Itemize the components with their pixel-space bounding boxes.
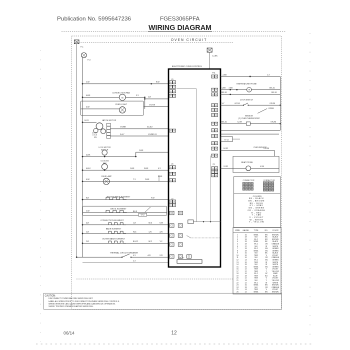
svg-text:7-BK: 7-BK [229,88,234,90]
pin J4-3 [169,179,172,182]
pin P11-8 [212,129,215,132]
svg-text:DOOR SWITCH: DOOR SWITCH [240,99,254,101]
svg-text:BROWN: BROWN [272,291,279,293]
svg-text:BK-10: BK-10 [272,92,277,94]
right box edge [279,77,281,131]
svg-text:M: M [121,97,123,99]
svg-text:12: 12 [245,291,247,293]
svg-text:OR/BK: OR/BK [268,108,274,110]
pin J2-1 [169,200,172,203]
svg-text:OVEN LAMP: OVEN LAMP [101,175,112,178]
pin P11-5 [212,108,215,111]
wire right row D [221,104,244,106]
svg-text:OR-96: OR-96 [264,148,270,150]
svg-text:Y - YELLOW: Y - YELLOW [249,222,264,224]
svg-text:31-BU: 31-BU [147,127,153,129]
svg-text:COLOR: COLOR [272,230,279,232]
pin J9-2 [169,85,172,88]
wire to pin 2-R [145,98,169,100]
svg-text:P-3: P-3 [88,60,91,62]
wire element1 row [83,199,169,201]
svg-text:GY-8: GY-8 [141,215,145,217]
pin J4-1 [169,166,172,169]
svg-text:CAUTION:: CAUTION: [45,295,56,298]
svg-text:P2 J2: P2 J2 [224,139,228,141]
svg-text:W-6: W-6 [149,223,152,225]
lock switch circle [102,150,107,155]
svg-text:9-BK: 9-BK [144,168,149,170]
wire table box [233,228,281,295]
svg-text:OR-96: OR-96 [270,103,276,105]
wire lock row [83,156,136,158]
svg-text:6-OR: 6-OR [238,122,243,124]
wire right lower [221,133,280,135]
wire latch feed [83,121,97,123]
wire U2 out [193,221,220,223]
svg-text:SW.: SW. [94,137,98,139]
svg-text:4-BK: 4-BK [86,95,91,97]
fold mark left [40,50,42,342]
EOC inner wire vertical [195,89,197,222]
svg-text:V-44: V-44 [260,166,264,168]
pin P11-10 [212,142,215,145]
svg-text:LABEL ALL WIRES PRIOR TO DISCO: LABEL ALL WIRES PRIOR TO DISCONNECTION W… [49,300,120,303]
svg-text:OVEN LIGHT: OVEN LIGHT [115,104,128,106]
element1 squiggle [106,197,127,199]
pin J2-2 [169,203,172,206]
connector P2 box [221,137,233,142]
wire latch long [110,135,220,137]
wire lock jog [135,152,137,156]
pin J9-3 [169,90,172,93]
caution box [44,293,282,309]
wire jog [144,97,146,109]
wire latch a [110,128,168,130]
colors divider [234,192,281,194]
svg-text:WIRING DIAGRAM: WIRING DIAGRAM [148,23,211,32]
table header line [233,231,281,233]
svg-text:BK-10: BK-10 [270,88,275,90]
wire conv el row [83,224,169,226]
wire outer bake row [83,242,169,244]
pin J4-2 [169,172,172,175]
connector J6 row [170,255,174,259]
pin P1-3 [212,174,215,177]
svg-text:12-BK: 12-BK [212,55,218,57]
breaker switch [122,254,130,257]
thermostat diagonal [258,109,268,114]
svg-text:W-2: W-2 [149,241,152,243]
svg-text:W-6: W-6 [133,231,136,233]
svg-text:OR-96: OR-96 [271,122,277,124]
label GY-8 broil [139,213,147,216]
EOC inner vertical 2 [210,156,212,222]
svg-text:2-OR: 2-OR [224,166,229,168]
svg-text:4-BK: 4-BK [86,154,91,156]
meat probe box [233,156,279,172]
svg-text:4-W: 4-W [86,179,90,181]
wire right row C [221,93,281,95]
broil diagonal [145,207,151,212]
svg-text:1-BK: 1-BK [222,88,227,90]
connector colors box [234,177,281,228]
svg-text:MEAT PROBE: MEAT PROBE [241,161,253,164]
oven light box [81,101,144,115]
svg-text:BK-10: BK-10 [222,122,227,124]
svg-text:P-1: P-1 [81,47,84,49]
wire bottom row [83,262,169,264]
svg-text:2-BK: 2-BK [223,74,228,76]
conv el squiggle [109,223,127,225]
svg-text:BK-10: BK-10 [222,92,227,94]
terminal L2 [207,48,212,52]
EOC inner wire horizontal [177,88,197,90]
wire breaker row [77,256,122,258]
thermostat symbol [246,122,250,125]
terminal N fuse [81,53,86,58]
svg-text:ELECTRONIC OVEN CONTROL: ELECTRONIC OVEN CONTROL [172,66,203,68]
svg-text:J4: J4 [171,164,173,166]
svg-text:BK-8: BK-8 [133,211,137,213]
svg-text:VERIFY PROPER OPERATION AFTER: VERIFY PROPER OPERATION AFTER SERVICING. [49,305,94,308]
right box bottom [221,129,281,131]
svg-text:CONVECTION ELEMENT: CONVECTION ELEMENT [100,220,124,222]
pin P11-4 [212,104,215,107]
wire lock to pin [136,151,169,153]
connector pin grids [243,182,245,184]
wire meat probe [221,167,246,169]
svg-text:2-W: 2-W [86,82,90,84]
convection fan motor [119,94,125,100]
wire main bus [82,58,84,257]
svg-text:SRML: SRML [254,291,259,293]
svg-text:9-GY: 9-GY [120,134,125,136]
pin P11-2 [212,88,215,91]
svg-text:GY/BR: GY/BR [120,127,127,129]
fold mark bottom [36,343,314,345]
pin P11-11 [212,147,215,150]
svg-text:(2) OVEN THERMOSTAT: (2) OVEN THERMOSTAT [238,117,260,120]
svg-text:LATCH MOTOR: LATCH MOTOR [102,119,117,122]
svg-text:8-W: 8-W [156,82,160,84]
fold mark right [309,33,311,342]
svg-text:CONNECTOR: CONNECTOR [243,180,255,182]
svg-text:GY-96: GY-96 [235,103,240,105]
connector J4b row [170,224,174,228]
broil squiggle [106,210,127,212]
svg-text:9-W: 9-W [160,223,164,225]
inner dashed line [76,42,233,44]
svg-text:4-W: 4-W [86,107,90,109]
svg-text:4-Y 2-Y: 4-Y 2-Y [179,257,186,259]
wire cooling row [83,169,169,171]
connector J3b row [170,234,174,238]
oven lamp symbol [103,178,109,184]
meat probe jack [246,166,251,171]
svg-text:12: 12 [171,331,177,337]
wire light to pin [144,106,169,108]
pin P11-7 [212,122,215,125]
pin P11-1 [212,75,215,78]
connector J7 row [170,243,174,247]
svg-text:4-BU: 4-BU [86,168,91,170]
EOC box U1 [169,69,221,267]
outer dashed border [72,36,282,309]
title underline [148,30,212,32]
svg-text:TEMPERATURE PROBE: TEMPERATURE PROBE [236,83,257,86]
wire lamp row [83,180,169,182]
wire row top [83,83,169,85]
svg-text:Publication No. 5995647236: Publication No. 5995647236 [57,17,132,23]
wire oven light [81,108,120,110]
svg-text:8-GY: 8-GY [85,120,90,122]
pin P11-12 [212,154,215,157]
pin P1-2 [212,170,215,173]
wire J3b diagonal [187,236,191,238]
svg-text:OVEN CIRCUIT: OVEN CIRCUIT [171,38,207,42]
terminal L1 [74,40,79,44]
svg-text:1-BK: 1-BK [130,168,135,170]
svg-text:WIRING ERRORS CAN CAUSE IMPROP: WIRING ERRORS CAN CAUSE IMPROPER AND DAN… [49,302,116,305]
wire meat probe 2 [251,167,279,169]
svg-text:FGES3065PFA: FGES3065PFA [160,17,200,23]
svg-text:26: 26 [237,291,239,293]
broil element box [83,206,167,215]
wire right row A [221,76,281,78]
svg-text:Y-2: Y-2 [160,241,163,243]
svg-text:BAKE ELEMENT: BAKE ELEMENT [106,228,122,231]
bake squiggle [109,231,127,233]
wire P2 stub [233,138,241,140]
svg-text:2-BK: 2-BK [145,179,150,181]
svg-text:GY/OR: GY/OR [149,104,156,106]
wire lamp jog [158,175,160,181]
probe motor [247,87,252,92]
wire J3b out [191,237,221,239]
pin P11-3 [212,93,215,96]
svg-text:HIDDEN BAKE ELEMENT: HIDDEN BAKE ELEMENT [107,195,131,198]
dashed separator under title [62,31,287,33]
svg-text:BU-12: BU-12 [133,241,138,243]
connector J5 row [170,211,174,215]
pin J9-1 [169,81,172,84]
svg-text:8-OR: 8-OR [224,148,229,150]
wire bake row [83,233,169,235]
wire sensor row [221,149,275,151]
svg-text:P11: P11 [212,72,215,74]
connector J8 wide box [177,260,202,264]
inner dashed bottom [76,278,233,280]
svg-text:GY/BR-31: GY/BR-31 [148,134,157,136]
wire L2 drop [209,52,211,69]
outer bake squiggle [109,241,127,243]
pin P11-9 [212,134,215,137]
pin P1-1 [212,167,215,170]
svg-text:1-BK: 1-BK [139,150,144,152]
pin J3 [169,129,172,132]
svg-text:06/14: 06/14 [64,331,76,336]
svg-text:P1: P1 [213,164,215,166]
wire convection fan row [83,96,145,98]
wire right row B [221,89,281,91]
wire broil row [83,212,167,214]
cooling fan motor [102,164,108,170]
wire L1 drop [76,44,78,258]
latch switch bank [107,123,111,126]
pin J9-4 [169,94,172,97]
svg-text:9-W: 9-W [151,197,155,199]
svg-text:OUTER BAKE ELEMENT: OUTER BAKE ELEMENT [102,238,126,241]
wire sensor drop [273,150,275,156]
pin P11-6 [212,113,215,116]
svg-text:2-W: 2-W [86,210,90,212]
svg-text:8-BK: 8-BK [158,176,163,178]
relay U2 box [188,220,194,224]
door switch symbol [244,103,249,105]
latch motor cluster [96,123,103,130]
wire right row E [221,123,281,125]
svg-text:GAUGE: GAUGE [243,229,250,232]
svg-text:NO.: NO. [265,230,269,232]
oven light lamp [119,107,125,113]
